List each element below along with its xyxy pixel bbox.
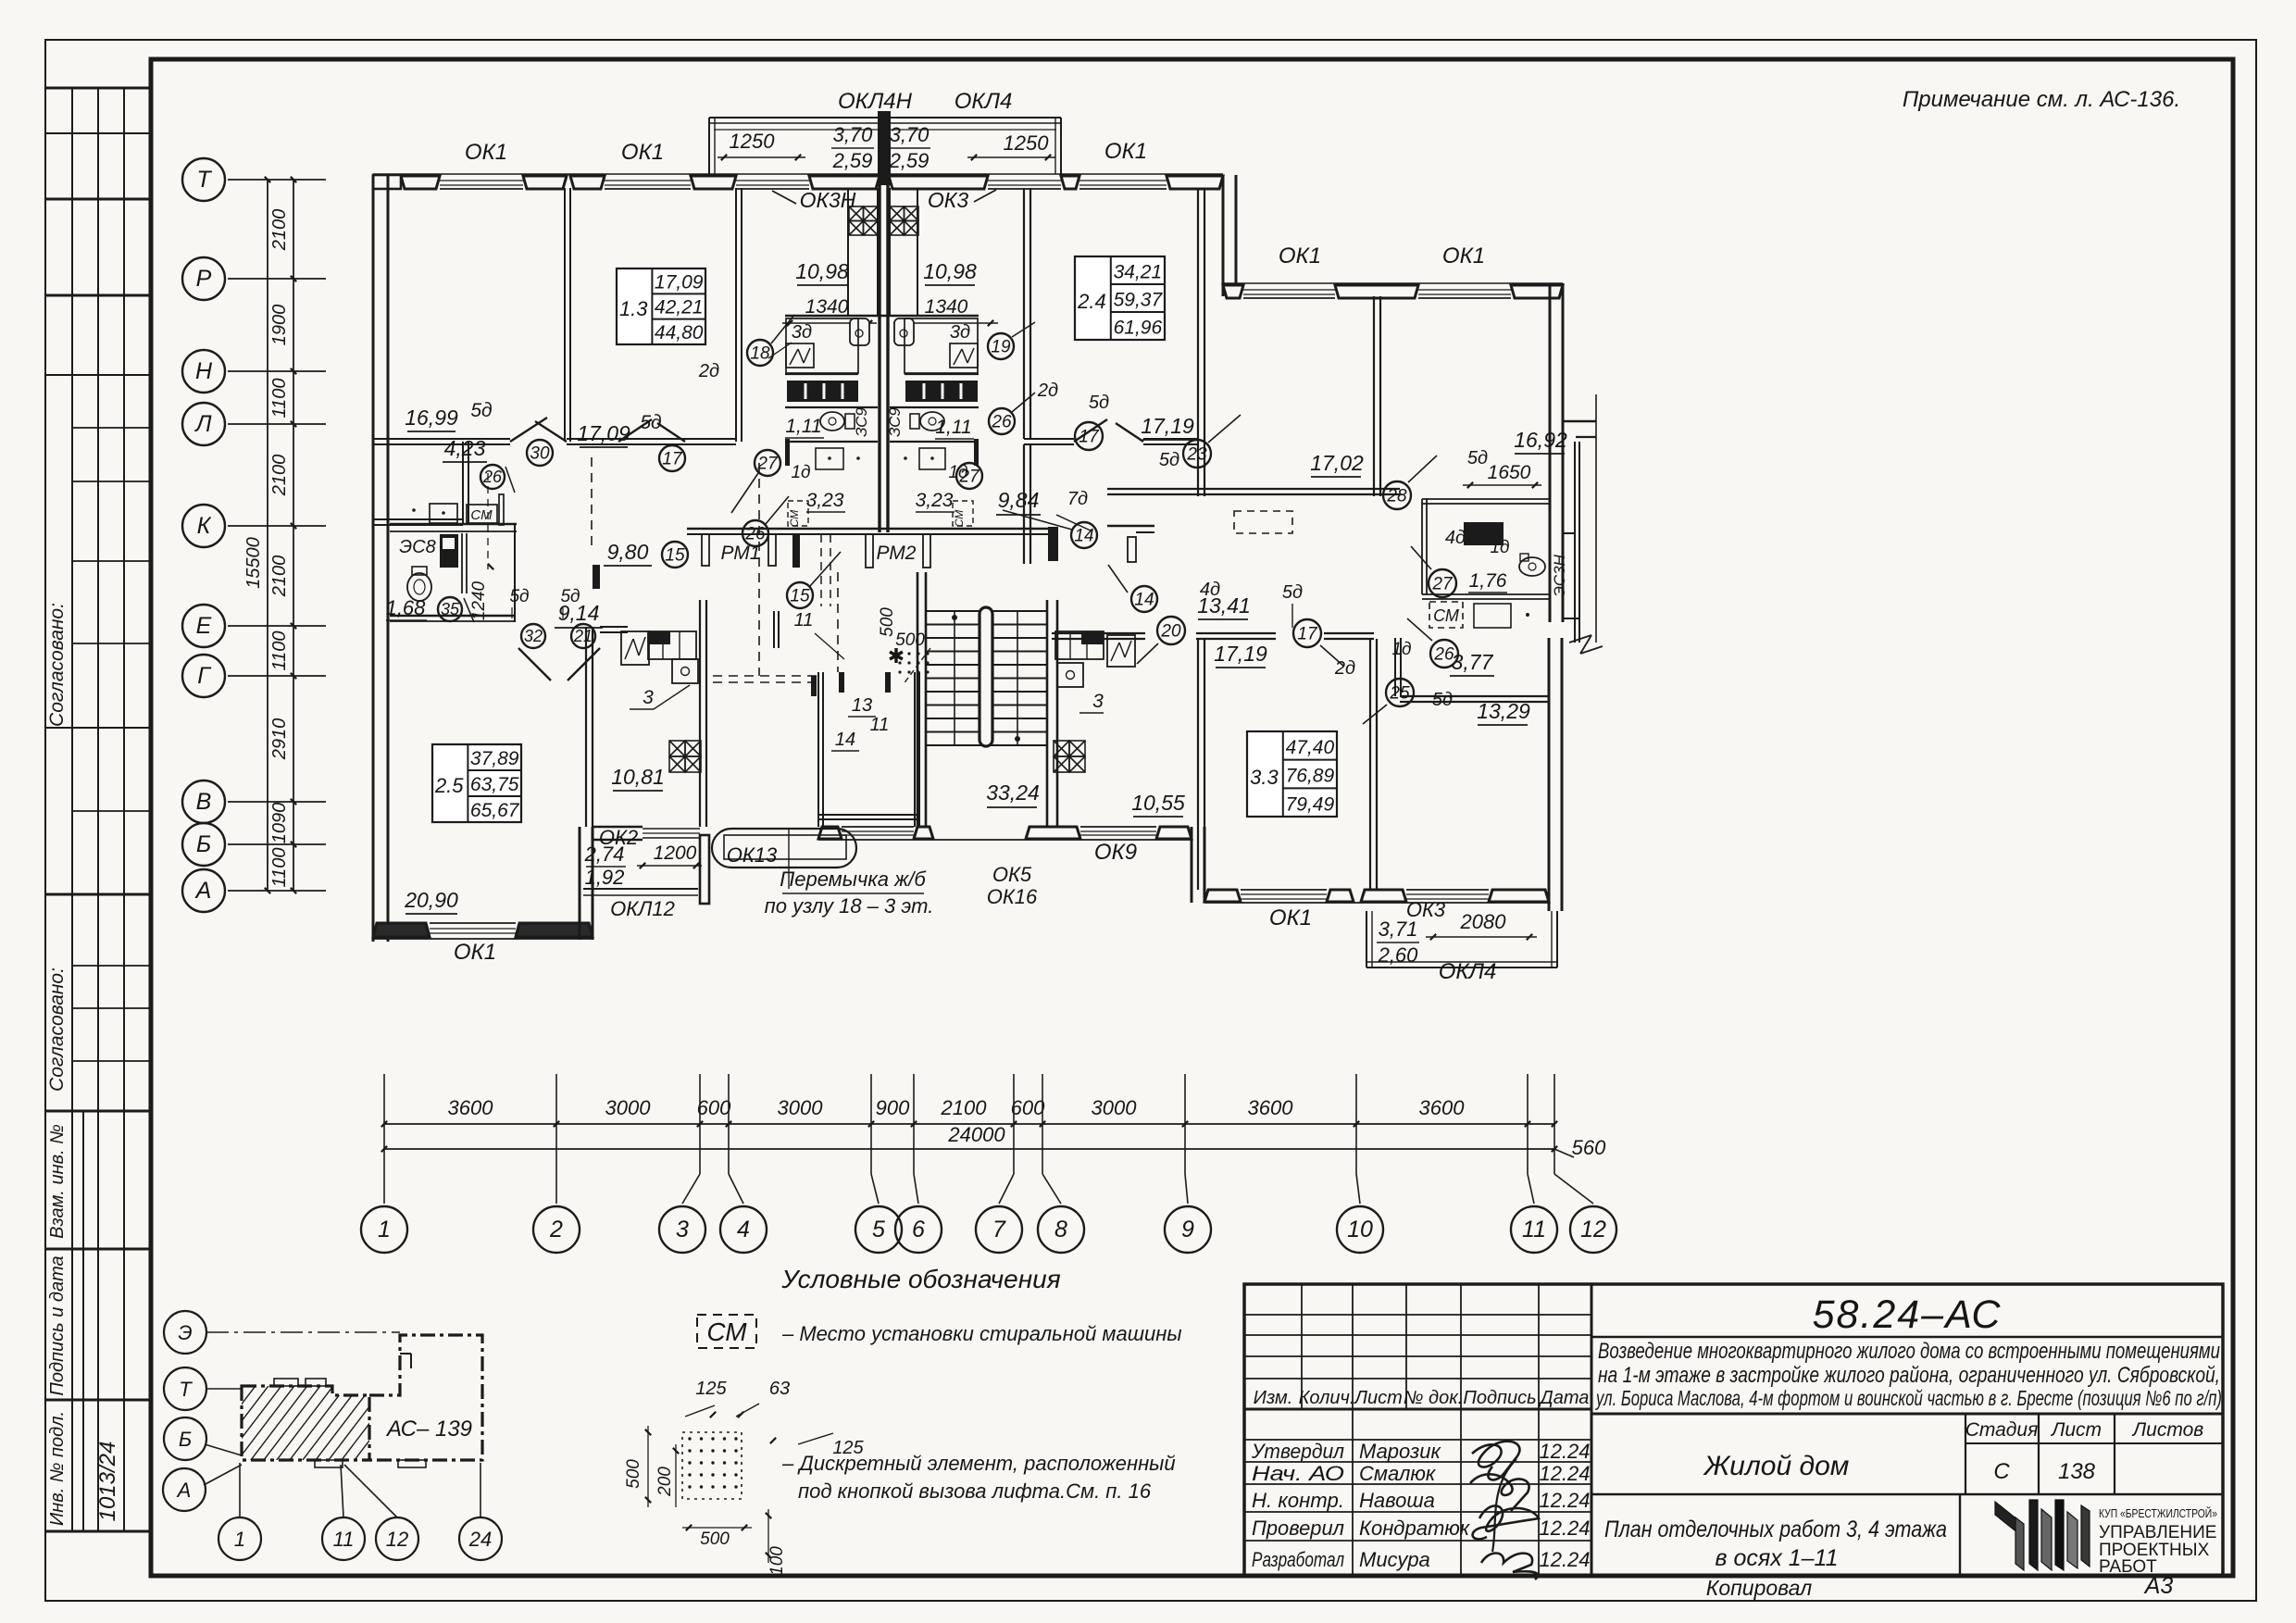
kitchen right zigzag box xyxy=(1107,635,1135,667)
door leaf 35 xyxy=(464,598,474,622)
svg-text:59,37: 59,37 xyxy=(1114,289,1164,310)
axis circle Р xyxy=(182,257,225,300)
dim 1650 xyxy=(1463,484,1541,486)
svg-text:16,99: 16,99 xyxy=(405,406,458,430)
svg-text:Стадия: Стадия xyxy=(1965,1419,2039,1441)
svg-text:ОК1: ОК1 xyxy=(1279,243,1321,268)
corner pier top-left xyxy=(373,175,401,189)
svg-text:Л: Л xyxy=(193,411,212,437)
signature scribbles xyxy=(1472,1442,1519,1480)
svg-text:15500: 15500 xyxy=(243,537,264,589)
svg-text:Взам. инв. №: Взам. инв. № xyxy=(47,1124,68,1239)
wall y568 below kitchen xyxy=(390,523,517,525)
left vertical dim line chain xyxy=(293,180,294,891)
svg-text:1,11: 1,11 xyxy=(785,416,821,437)
svg-text:– Место установки стиральной м: – Место установки стиральной машины xyxy=(781,1322,1182,1345)
axis circle 11 xyxy=(1527,1149,1529,1174)
svg-text:ОК1: ОК1 xyxy=(1442,243,1485,268)
svg-text:17,19: 17,19 xyxy=(1214,642,1267,666)
axis circle 3 xyxy=(699,1149,701,1174)
window ОКЗН xyxy=(736,180,809,181)
svg-text:1090: 1090 xyxy=(269,803,290,844)
wall y642 below СМ right xyxy=(1422,593,1549,595)
svg-text:под кнопкой вызова лифта.См. п: под кнопкой вызова лифта.См. п. 16 xyxy=(798,1479,1152,1503)
wall x1487 rooms divider upper xyxy=(1373,296,1375,496)
СМ box left flat xyxy=(788,501,808,526)
axis/door circle 26 xyxy=(989,408,1015,434)
window ОК1 room 2.4 xyxy=(1079,180,1167,181)
balcony ОКЛ4Н outer rail xyxy=(709,117,1061,119)
svg-text:С: С xyxy=(1993,1459,2010,1484)
bottom axis dimension chain row 1 xyxy=(384,1123,1554,1125)
axis circle 10 xyxy=(1355,1149,1357,1174)
svg-text:9,80: 9,80 xyxy=(607,540,649,564)
svg-text:125: 125 xyxy=(695,1379,727,1399)
svg-text:Возведение многоквартирного жи: Возведение многоквартирного жилого дома … xyxy=(1598,1339,2220,1364)
СМ box right flat xyxy=(953,501,973,526)
dashed corridor pair below xyxy=(820,534,822,606)
stage table header line xyxy=(1965,1442,2223,1444)
kitchen left of stair: counter xyxy=(648,631,696,659)
svg-text:20,90: 20,90 xyxy=(404,888,458,912)
axis/door circle 26 xyxy=(742,520,768,546)
svg-text:61,96: 61,96 xyxy=(1114,317,1163,338)
svg-text:17: 17 xyxy=(1079,427,1100,446)
svg-text:17,09: 17,09 xyxy=(655,271,704,293)
continuation wall stubs to axis 12 xyxy=(1563,420,1596,423)
svg-text:2100: 2100 xyxy=(269,455,290,497)
dim 1250 left balcony xyxy=(717,156,805,158)
svg-text:А: А xyxy=(194,878,212,904)
corridor dashed lines entrance xyxy=(713,675,818,677)
СМ box right wing xyxy=(1429,602,1463,628)
stair direction dots xyxy=(952,615,957,620)
sink right at party wall xyxy=(894,318,914,345)
svg-text:17,19: 17,19 xyxy=(1141,414,1194,438)
svg-text:1100: 1100 xyxy=(269,847,290,887)
partition x1297 rooms 17,19/3.3 left wall xyxy=(1197,639,1199,890)
svg-text:17: 17 xyxy=(662,449,683,468)
svg-text:7д: 7д xyxy=(1067,489,1088,509)
toilet right flat xyxy=(920,412,944,431)
kitchen front wall y403 right xyxy=(905,373,979,375)
svg-text:79,49: 79,49 xyxy=(1286,793,1335,815)
svg-text:– Дискретный элемент, располож: – Дискретный элемент, расположенный xyxy=(781,1452,1176,1475)
window ОК1 b xyxy=(605,180,691,181)
wall x1507 corridor right wing xyxy=(1394,638,1396,696)
axis/door circle 14 xyxy=(1071,522,1097,548)
bath partition x499 xyxy=(461,533,463,593)
svg-text:23: 23 xyxy=(1186,444,1207,464)
fridge zigzag box right xyxy=(950,343,978,368)
svg-text:1340: 1340 xyxy=(925,296,968,318)
svg-text:2.5: 2.5 xyxy=(434,774,464,797)
axis/door circle 17 xyxy=(1075,422,1103,450)
dim 1200 xyxy=(637,865,702,867)
party wall between flats x950-959 xyxy=(878,184,880,532)
svg-text:СМ: СМ xyxy=(788,510,801,528)
svg-text:Е: Е xyxy=(196,613,212,639)
svg-text:Навоша: Навоша xyxy=(1359,1489,1435,1512)
kitchen counter left flat xyxy=(430,504,457,523)
window ОК5/ОК16 under stair xyxy=(842,826,914,828)
vanity right flat xyxy=(919,448,945,469)
svg-text:Кондратюк: Кондратюк xyxy=(1359,1517,1471,1540)
svg-text:3000: 3000 xyxy=(778,1096,824,1119)
title block main divider x1719 xyxy=(1591,1284,1593,1576)
apartment table 3.3 xyxy=(1247,731,1337,817)
svg-text:3,70: 3,70 xyxy=(833,123,874,146)
key plan hatched building part xyxy=(242,1386,369,1460)
svg-text:1900: 1900 xyxy=(269,305,290,346)
svg-text:63,75: 63,75 xyxy=(470,774,519,795)
svg-text:ЭС3Н: ЭС3Н xyxy=(1551,554,1568,597)
svg-text:1.3: 1.3 xyxy=(619,297,648,320)
landing door marks xyxy=(811,676,817,696)
window ОКЗ bottom xyxy=(1406,889,1489,891)
partition wall row Л y474 xyxy=(373,438,510,440)
svg-text:19: 19 xyxy=(991,337,1011,356)
svg-text:63: 63 xyxy=(769,1379,790,1399)
svg-text:Согласовано:: Согласовано: xyxy=(46,968,68,1092)
axis circle Л xyxy=(182,403,225,445)
stub post right of СМ xyxy=(499,494,504,525)
left stamp strip partial cell lines xyxy=(72,427,151,429)
title block outer xyxy=(1244,1284,2223,1576)
logo box divider xyxy=(1959,1494,1961,1576)
svg-text:2,60: 2,60 xyxy=(1378,943,1419,967)
balcony party divider wall xyxy=(878,111,891,185)
svg-text:7: 7 xyxy=(992,1217,1006,1242)
svg-text:ОК13: ОК13 xyxy=(727,843,778,867)
svg-text:3600: 3600 xyxy=(1419,1096,1466,1119)
svg-text:24: 24 xyxy=(468,1528,492,1551)
svg-text:1,11: 1,11 xyxy=(935,417,971,438)
svg-text:Жилой дом: Жилой дом xyxy=(1703,1451,1850,1481)
wall x1297 lower segment xyxy=(1197,444,1199,496)
СМ box left flat kitchen xyxy=(467,505,497,523)
svg-text:10,55: 10,55 xyxy=(1131,791,1185,815)
svg-text:34,21: 34,21 xyxy=(1114,261,1163,282)
kitchen box left flat xyxy=(786,318,858,373)
svg-text:РМ1: РМ1 xyxy=(721,543,761,564)
step wall left wing to porch xyxy=(579,827,581,940)
junction stub y576 xyxy=(1563,532,1575,534)
svg-text:26: 26 xyxy=(482,468,503,486)
apartment table 2.4 xyxy=(1075,256,1165,340)
axis/door circle 20 xyxy=(1157,617,1185,644)
svg-text:АС– 139: АС– 139 xyxy=(385,1417,472,1442)
axis circle Г xyxy=(182,655,225,697)
title block upper-left revision rows xyxy=(1244,1314,1591,1316)
axis/door circle 19 xyxy=(988,333,1014,359)
door leaf room 1.3 xyxy=(618,419,652,442)
title block upper verticals xyxy=(1301,1284,1303,1409)
wall x758 kitchen divider left flat xyxy=(699,600,701,827)
axis/door circle 30 xyxy=(527,440,553,466)
axis/door circle 26 xyxy=(1430,640,1458,668)
svg-text:3: 3 xyxy=(676,1217,689,1242)
svg-text:Э: Э xyxy=(178,1321,192,1344)
svg-text:Утвердил: Утвердил xyxy=(1251,1440,1344,1463)
svg-text:ОК16: ОК16 xyxy=(987,885,1038,908)
svg-text:2д: 2д xyxy=(698,361,719,381)
svg-text:26: 26 xyxy=(991,412,1012,431)
exterior wall axis Р piers xyxy=(1223,285,1243,298)
axis/door circle 25 xyxy=(1386,679,1414,706)
svg-text:Лист: Лист xyxy=(1353,1388,1403,1408)
svg-text:ул. Бориса Маслова, 4-м фортом: ул. Бориса Маслова, 4-м фортом и воинско… xyxy=(1595,1386,2222,1410)
svg-text:2,59: 2,59 xyxy=(889,149,930,172)
svg-text:900: 900 xyxy=(876,1096,910,1119)
apartment table 2.5 xyxy=(432,744,521,822)
exterior left wall axis 1 xyxy=(372,175,375,942)
dotted concrete pad xyxy=(898,652,929,673)
key plan right wing outline xyxy=(369,1335,482,1460)
svg-text:в осях 1–11: в осях 1–11 xyxy=(1716,1545,1839,1571)
svg-text:ЗС9: ЗС9 xyxy=(886,407,904,437)
svg-text:12: 12 xyxy=(1580,1217,1606,1242)
svg-text:3000: 3000 xyxy=(605,1096,652,1119)
svg-text:5д: 5д xyxy=(1159,450,1179,470)
svg-text:1100: 1100 xyxy=(269,378,290,418)
svg-text:Разработал: Разработал xyxy=(1252,1548,1344,1571)
axis circle К xyxy=(182,505,225,547)
svg-text:СМ: СМ xyxy=(706,1317,747,1346)
key plan axis circle Э xyxy=(164,1311,206,1354)
kitchen top wall segment left flat xyxy=(600,626,628,628)
svg-text:Н: Н xyxy=(195,358,213,384)
svg-text:Изм.: Изм. xyxy=(1254,1388,1293,1408)
svg-text:27: 27 xyxy=(1431,574,1454,593)
svg-text:5: 5 xyxy=(872,1217,885,1242)
axis/door circle 32 xyxy=(521,624,545,648)
svg-text:Подпись: Подпись xyxy=(1463,1388,1536,1408)
svg-text:12.24: 12.24 xyxy=(1539,1489,1590,1512)
svg-text:47,40: 47,40 xyxy=(1286,737,1335,758)
wall y474 room 2.4 bottom xyxy=(1024,438,1074,440)
title block lower verticals xyxy=(1352,1409,1354,1576)
svg-text:ОК5: ОК5 xyxy=(992,863,1032,886)
door 14 gap and post xyxy=(1128,537,1136,562)
axis circle В xyxy=(182,780,225,823)
axis/door circle 21 xyxy=(571,624,595,648)
svg-text:3.3: 3.3 xyxy=(1250,766,1279,789)
bottom wall entrance section xyxy=(818,839,1192,841)
axis circle 4 xyxy=(728,1149,730,1174)
svg-text:1650: 1650 xyxy=(1488,462,1531,483)
svg-text:2,74: 2,74 xyxy=(584,843,625,866)
svg-text:1200: 1200 xyxy=(654,843,697,864)
axis circle 1 xyxy=(383,1149,385,1174)
wall 1,68 room y668 xyxy=(390,615,516,617)
svg-text:9: 9 xyxy=(1181,1217,1194,1242)
kitchen right sink faucet box xyxy=(1057,663,1083,687)
axis/door circle 27 xyxy=(956,463,982,489)
svg-text:ЗС9: ЗС9 xyxy=(853,407,870,437)
black post at door 14 xyxy=(1048,527,1058,561)
svg-text:17,02: 17,02 xyxy=(1310,451,1364,475)
legend СМ dashed box xyxy=(697,1315,756,1348)
svg-text:10,98: 10,98 xyxy=(795,259,849,283)
svg-text:2100: 2100 xyxy=(269,556,290,598)
vanity right wing xyxy=(1474,604,1511,628)
svg-text:Инв. № подл.: Инв. № подл. xyxy=(47,1411,68,1526)
svg-text:1340: 1340 xyxy=(805,296,849,318)
key plan notch detail xyxy=(400,1353,411,1355)
svg-text:✱: ✱ xyxy=(888,644,905,668)
svg-text:2д: 2д xyxy=(1334,658,1355,679)
svg-text:Лист: Лист xyxy=(2050,1419,2102,1441)
core top wall y341 xyxy=(785,315,979,317)
corner at y672 xyxy=(1563,618,1579,619)
stair central handrail pill xyxy=(980,607,992,746)
svg-text:500: 500 xyxy=(878,607,897,637)
toilet left flat lower xyxy=(412,567,427,575)
wall x1540 vertical right bath xyxy=(1421,499,1423,594)
svg-text:3д: 3д xyxy=(950,322,970,343)
svg-text:27: 27 xyxy=(756,454,779,473)
svg-text:3600: 3600 xyxy=(448,1096,494,1119)
key plan bottom circle 1 xyxy=(218,1517,261,1560)
exterior wall axis Р right wing outer face xyxy=(1223,282,1563,284)
stage table verticals xyxy=(1965,1414,1966,1494)
axis circle 9 xyxy=(1184,1149,1186,1174)
svg-text:11: 11 xyxy=(333,1528,355,1551)
svg-text:13,29: 13,29 xyxy=(1477,699,1530,723)
svg-text:11: 11 xyxy=(794,610,814,630)
svg-text:600: 600 xyxy=(697,1096,731,1119)
entrance porch walls xyxy=(773,611,775,648)
svg-text:Смалюк: Смалюк xyxy=(1359,1462,1437,1485)
svg-text:Условные обозначения: Условные обозначения xyxy=(780,1265,1060,1293)
svg-text:12: 12 xyxy=(386,1528,408,1551)
axis/door circle 28 xyxy=(1383,481,1411,509)
partition x1484 rooms 3.3 right wall xyxy=(1369,639,1371,890)
svg-text:37,89: 37,89 xyxy=(470,748,519,769)
bath bottom wall y477 xyxy=(785,441,878,443)
svg-text:2: 2 xyxy=(549,1217,563,1242)
svg-text:11: 11 xyxy=(1522,1217,1546,1242)
svg-text:17: 17 xyxy=(1297,624,1318,643)
svg-text:4,23: 4,23 xyxy=(444,436,486,460)
key plan balcony bumps xyxy=(274,1379,298,1386)
svg-text:Р: Р xyxy=(196,266,212,292)
axis verticals above dim line xyxy=(383,1074,385,1149)
svg-text:10: 10 xyxy=(1347,1217,1373,1242)
svg-text:Т: Т xyxy=(179,1378,193,1401)
key plan bottom circle 12 xyxy=(376,1517,418,1560)
svg-text:3,23: 3,23 xyxy=(916,490,954,511)
svg-text:5д: 5д xyxy=(1282,582,1303,603)
dim 1250 right balcony xyxy=(967,156,1055,158)
svg-text:Б: Б xyxy=(196,831,211,857)
door leaf 32 xyxy=(518,648,551,680)
bath wall stubs xyxy=(785,439,790,466)
svg-text:600: 600 xyxy=(1011,1096,1045,1119)
svg-text:Т: Т xyxy=(196,167,212,193)
key plan axis circle Т xyxy=(164,1367,206,1410)
svg-text:Марозик: Марозик xyxy=(1359,1440,1441,1463)
svg-text:8: 8 xyxy=(1054,1217,1067,1242)
axis circle 6 xyxy=(913,1149,915,1174)
svg-text:14: 14 xyxy=(835,730,855,750)
black stove ЭС8 xyxy=(440,534,458,568)
vanity left flat xyxy=(816,448,843,469)
key plan axis circle Б xyxy=(164,1417,206,1460)
dashed line x527 xyxy=(487,473,489,569)
svg-text:5д: 5д xyxy=(1089,393,1109,413)
bottom axis dimension row 24000 xyxy=(384,1148,1554,1150)
svg-text:А3: А3 xyxy=(2143,1573,2174,1599)
svg-text:В: В xyxy=(196,789,212,815)
title block thick line y1522 xyxy=(1244,1408,1591,1411)
svg-text:ЭС8: ЭС8 xyxy=(399,537,435,557)
apartment table 1.3 xyxy=(617,268,705,344)
svg-text:44,80: 44,80 xyxy=(655,322,704,343)
wall row К y561 xyxy=(373,518,463,520)
sink left at party wall xyxy=(850,318,869,345)
door leaf room 16,99 xyxy=(510,418,547,442)
black stub РМ1 right xyxy=(792,534,800,568)
svg-text:500: 500 xyxy=(624,1459,643,1489)
exterior right wall lower part xyxy=(1548,638,1551,911)
svg-text:2080: 2080 xyxy=(1460,910,1507,933)
window ОК1 right wing a xyxy=(1243,289,1335,291)
axis/door circle 15 xyxy=(787,582,813,608)
vent hatch right stair kitchen xyxy=(1054,741,1069,756)
axis/door circle 35 xyxy=(438,597,462,621)
leader 5д low xyxy=(1291,604,1293,628)
title block signer rows lines xyxy=(1244,1439,1591,1441)
svg-text:Перемычка ж/б: Перемычка ж/б xyxy=(780,868,927,891)
wall y893 left porch xyxy=(593,826,643,829)
axis/door circle 17 xyxy=(659,445,685,471)
svg-text:5д: 5д xyxy=(1467,448,1488,468)
left stamp strip verticals xyxy=(71,88,73,1531)
vent shaft walls left xyxy=(847,188,849,316)
svg-text:А: А xyxy=(176,1479,192,1502)
axis circle 7 xyxy=(1013,1149,1015,1174)
step wall from Т to Р at x1321 xyxy=(1222,175,1225,296)
svg-text:12.24: 12.24 xyxy=(1539,1440,1590,1463)
window ОК1 right wing b xyxy=(1418,289,1511,291)
svg-text:3600: 3600 xyxy=(1248,1096,1294,1119)
kitchen left zigzag box xyxy=(621,631,649,665)
svg-text:560: 560 xyxy=(1572,1136,1606,1159)
left vertical dim line 15500 xyxy=(267,180,268,891)
partition x1297 room 2.4 right xyxy=(1197,188,1199,444)
svg-text:28: 28 xyxy=(1386,486,1407,506)
svg-text:1250: 1250 xyxy=(1004,131,1050,155)
svg-text:Мисура: Мисура xyxy=(1359,1548,1430,1571)
svg-text:2910: 2910 xyxy=(269,718,290,761)
axis circle 2 xyxy=(555,1149,557,1174)
bath top wall y440 xyxy=(785,406,878,408)
svg-text:на 1-м этаже в застройке жилог: на 1-м этаже в застройке жилого района, … xyxy=(1598,1363,2220,1388)
svg-text:1: 1 xyxy=(378,1217,391,1242)
svg-text:6: 6 xyxy=(912,1217,925,1242)
axis/door circle 14 xyxy=(1131,586,1157,612)
svg-text:27: 27 xyxy=(958,467,980,486)
svg-text:ОКЛ4Н: ОКЛ4Н xyxy=(838,89,913,114)
axis circle Б xyxy=(182,823,225,866)
key plan bottom circle 24 xyxy=(459,1517,502,1560)
corridor wall y571 xyxy=(687,528,1048,531)
vent shaft walls right xyxy=(889,188,891,316)
svg-text:100: 100 xyxy=(767,1546,787,1576)
key plan axis circle А xyxy=(163,1468,206,1511)
